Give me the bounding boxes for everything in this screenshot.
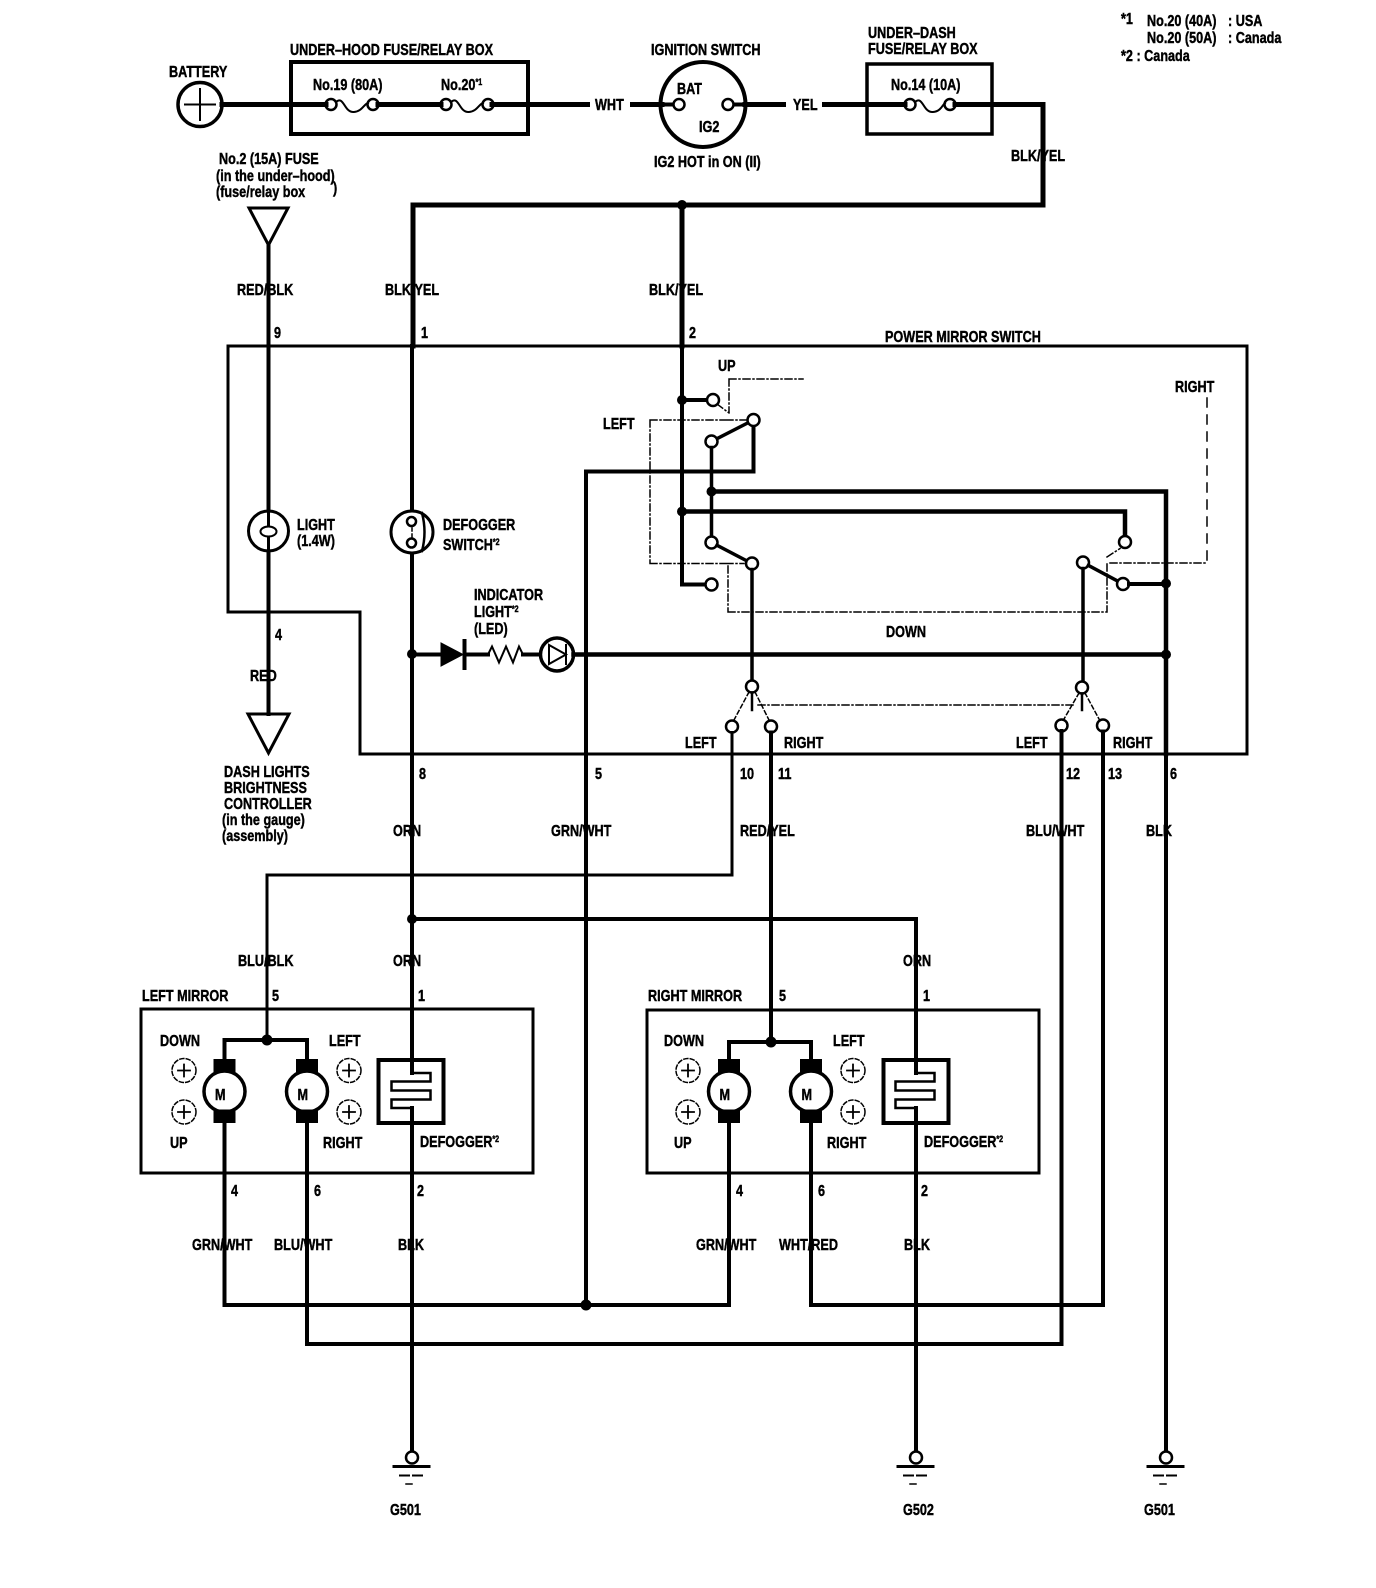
svg-text:6: 6 [314, 1183, 321, 1200]
under-hood fuse/relay box [291, 62, 528, 134]
svg-text:UNDER–DASH: UNDER–DASH [868, 25, 956, 42]
svg-text:BRIGHTNESS: BRIGHTNESS [224, 780, 307, 797]
power mirror switch box [228, 346, 1247, 754]
junction left mirror motors [262, 1035, 273, 1046]
wire WHT/RED bus to pin 13 [811, 732, 1103, 1306]
svg-text:BLK: BLK [1146, 823, 1172, 840]
fuse No.14 [905, 99, 916, 110]
svg-text:UNDER–HOOD FUSE/RELAY BOX: UNDER–HOOD FUSE/RELAY BOX [290, 42, 493, 59]
svg-text:(assembly): (assembly) [222, 828, 288, 845]
svg-text:UP: UP [170, 1135, 188, 1152]
wire battery to under-hood fuse box [222, 102, 292, 107]
svg-text:LIGHT: LIGHT [297, 517, 335, 534]
svg-text:LIGHT*2: LIGHT*2 [474, 604, 519, 621]
svg-text:4: 4 [231, 1183, 238, 1200]
junction ORN split [407, 914, 417, 924]
UP contact [707, 394, 719, 406]
right switch lever [1088, 565, 1117, 581]
right switch upper throw contact [1119, 536, 1131, 548]
ground G501 left [406, 1452, 418, 1464]
svg-text:No.14 (10A): No.14 (10A) [891, 77, 961, 94]
svg-text:8: 8 [419, 766, 426, 783]
svg-text:BLU/BLK: BLU/BLK [238, 953, 294, 970]
wire inside under-dash box [867, 102, 992, 107]
wire horizontal-1 to right side [712, 492, 1167, 755]
svg-text:No.19 (80A): No.19 (80A) [313, 77, 383, 94]
right mirror box [647, 1010, 1039, 1173]
adjuster screw top-left right mirror [676, 1059, 700, 1083]
ignition terminal BAT [674, 99, 685, 110]
svg-text:IG2: IG2 [699, 119, 719, 136]
contact pin 11 [765, 721, 777, 733]
motor M4 left/right right mirror [800, 1059, 822, 1073]
wire inside under-hood box [291, 102, 528, 107]
svg-text:No.2 (15A) FUSE: No.2 (15A) FUSE [219, 151, 319, 168]
svg-text:11: 11 [778, 766, 791, 783]
junction right vertical at stub [1161, 579, 1171, 589]
motor M3 up/down right mirror [718, 1059, 740, 1073]
svg-text:BLK: BLK [904, 1237, 930, 1254]
wire stub right throw to vertical [1129, 582, 1166, 586]
svg-text:POWER MIRROR SWITCH: POWER MIRROR SWITCH [885, 329, 1041, 346]
wire to diode [412, 653, 441, 657]
adjuster screw bottom-right [337, 1100, 361, 1124]
svg-text:(1.4W): (1.4W) [297, 533, 335, 550]
svg-text:G501: G501 [390, 1502, 421, 1519]
svg-text:DOWN: DOWN [664, 1033, 704, 1050]
wire RED pin 4 to dash lights controller [267, 612, 271, 714]
svg-text:: Canada: : Canada [1228, 30, 1281, 47]
svg-text:WHT/RED: WHT/RED [779, 1237, 838, 1254]
svg-text:No.20 (50A): No.20 (50A) [1147, 30, 1217, 47]
svg-text:BLK: BLK [398, 1237, 424, 1254]
mirror select mech link dashed [758, 704, 1074, 706]
svg-text:5: 5 [779, 988, 786, 1005]
svg-text:6: 6 [818, 1183, 825, 1200]
svg-text:DOWN: DOWN [886, 624, 926, 641]
defogger switch S2 [391, 511, 433, 553]
svg-text:(fuse/relay box: (fuse/relay box [216, 184, 305, 201]
svg-text:9: 9 [274, 325, 281, 342]
svg-text:5: 5 [272, 988, 279, 1005]
svg-text:13: 13 [1108, 766, 1122, 783]
diode D1 [441, 643, 463, 666]
wire BLU/WHT bus to pin 12 [307, 731, 1062, 1344]
mech link RIGHT dashed [1107, 549, 1207, 564]
svg-text:10: 10 [740, 766, 754, 783]
adjuster screw top-right right mirror [841, 1059, 865, 1083]
mirror select right lever [1081, 694, 1084, 711]
wire WHT fuse box to ignition switch [528, 102, 662, 107]
svg-text:DEFOGGER*2: DEFOGGER*2 [420, 1134, 499, 1151]
wire BLU/WHT left motor2 down [305, 1123, 309, 1344]
svg-text:IGNITION SWITCH: IGNITION SWITCH [651, 42, 761, 59]
svg-text:(in the gauge): (in the gauge) [222, 812, 305, 829]
svg-text:RED: RED [250, 668, 277, 685]
svg-text:G502: G502 [903, 1502, 934, 1519]
wire BLK/YEL from under-dash box down to bus [992, 105, 1043, 206]
svg-text:BLK/YEL: BLK/YEL [1011, 148, 1065, 165]
ground G502 [910, 1452, 922, 1464]
wire right pivot down to mirror-select [1081, 569, 1085, 683]
left switch lower throw contact [746, 558, 758, 570]
svg-text:): ) [333, 180, 337, 197]
wire pin 2 vertical inside box [682, 346, 706, 585]
wire diode to resistor [466, 653, 488, 657]
contact pin 12 [1056, 720, 1068, 732]
svg-text:GRN/WHT: GRN/WHT [696, 1237, 757, 1254]
svg-text:LEFT MIRROR: LEFT MIRROR [142, 988, 229, 1005]
svg-text:2: 2 [689, 325, 696, 342]
svg-text:BAT: BAT [677, 81, 702, 98]
svg-text:RIGHT: RIGHT [827, 1135, 866, 1152]
svg-text:CONTROLLER: CONTROLLER [224, 796, 312, 813]
svg-text:RIGHT: RIGHT [1113, 735, 1152, 752]
mirror select left lever [751, 693, 754, 711]
motor M1 up/down left mirror [214, 1059, 236, 1073]
svg-text:YEL: YEL [793, 97, 818, 114]
ground G501 right [1160, 1452, 1172, 1464]
adjuster screw top-left [172, 1059, 196, 1083]
left switch upper pivot contact [706, 436, 718, 448]
fuse No.2 symbol (triangle) [249, 208, 288, 245]
ignition switch SW1 [661, 62, 746, 147]
wire LED to right bus [574, 652, 1167, 657]
svg-text:No.20 (40A): No.20 (40A) [1147, 13, 1217, 30]
svg-text:4: 4 [736, 1183, 743, 1200]
svg-text:ORN: ORN [903, 953, 931, 970]
right switch pivot contact [1077, 557, 1089, 569]
svg-text:M: M [298, 1087, 309, 1104]
svg-text:DASH LIGHTS: DASH LIGHTS [224, 764, 310, 781]
svg-text:RIGHT: RIGHT [784, 735, 823, 752]
svg-text:No.20*1: No.20*1 [441, 77, 482, 94]
ignition terminal IG2 [723, 99, 734, 110]
svg-text:RIGHT: RIGHT [1175, 379, 1214, 396]
right defogger element box [884, 1060, 949, 1123]
mirror select left dashed throws [734, 692, 769, 720]
wire to both left motors [225, 1040, 308, 1059]
svg-text:LEFT: LEFT [685, 735, 717, 752]
svg-text:(LED): (LED) [474, 621, 508, 638]
junction at indicator branch [407, 649, 417, 659]
wire pin 1 through defogger switch to junction [410, 346, 414, 654]
contact pin 10 [726, 721, 738, 733]
svg-text:INDICATOR: INDICATOR [474, 587, 543, 604]
battery B1 [178, 83, 222, 127]
wire RED/BLK to pin 9 [267, 245, 271, 346]
mech link UP dashed [717, 379, 803, 413]
LED indicator lamp [541, 638, 574, 671]
mech link LEFT dashed box [650, 420, 746, 564]
left defogger element [392, 1073, 431, 1108]
adjuster screw bottom-left right mirror [676, 1100, 700, 1124]
svg-text:DEFOGGER*2: DEFOGGER*2 [924, 1134, 1003, 1151]
left switch upper lever [717, 423, 748, 439]
svg-text:2: 2 [921, 1183, 928, 1200]
svg-text:RIGHT MIRROR: RIGHT MIRROR [648, 988, 742, 1005]
mirror select right dashed throws [1064, 693, 1099, 719]
wire BLK pin 6 to ground [1164, 754, 1168, 1451]
junction right mirror motors [766, 1037, 777, 1048]
svg-text:G501: G501 [1144, 1502, 1175, 1519]
left defogger element box [379, 1060, 444, 1123]
right defogger element [896, 1073, 935, 1108]
svg-text:BLU/WHT: BLU/WHT [1026, 823, 1084, 840]
junction pin2 up contact [677, 395, 687, 405]
wire WHT/RED right motor2 down [809, 1123, 813, 1305]
fuse No.20 [441, 99, 452, 110]
mirror select right common contact [1076, 682, 1088, 694]
left switch lower lever [717, 545, 747, 560]
svg-text:5: 5 [595, 766, 602, 783]
svg-text:RED/BLK: RED/BLK [237, 282, 294, 299]
wire BLU/BLK pin10 to left mirror pin5 [267, 733, 732, 1041]
adjuster screw bottom-right right mirror [841, 1100, 865, 1124]
adjuster screw top-right [337, 1059, 361, 1083]
svg-text:LEFT: LEFT [603, 416, 635, 433]
svg-text:2: 2 [417, 1183, 424, 1200]
left mirror box [141, 1009, 533, 1173]
adjuster screw bottom-left [172, 1100, 196, 1124]
svg-text:M: M [802, 1087, 813, 1104]
junction on bus [677, 200, 687, 210]
svg-text:DOWN: DOWN [160, 1033, 200, 1050]
wire ORN pin8 to defoggers [410, 654, 414, 1073]
svg-text:BATTERY: BATTERY [169, 64, 228, 81]
svg-text:LEFT: LEFT [329, 1033, 361, 1050]
mech link DOWN dashed box [728, 563, 1107, 613]
left switch lower pivot contact [706, 537, 718, 549]
junction right vertical at indicator bus [1161, 650, 1171, 660]
wire pin 9 to light to pin 4 [267, 346, 271, 612]
svg-text:M: M [215, 1087, 226, 1104]
resistor R1 [488, 647, 523, 663]
svg-text:BLK/YEL: BLK/YEL [385, 282, 439, 299]
wire resistor to LED [523, 653, 541, 657]
svg-text:ORN: ORN [393, 953, 421, 970]
junction pin2 horizontal-2 [677, 507, 687, 517]
junction GRN/WHT bus [581, 1300, 592, 1311]
wire bus to pins 1 and 2 [413, 205, 1043, 346]
svg-text:M: M [720, 1087, 731, 1104]
motor M2 left/right left mirror [296, 1059, 318, 1073]
wire GRN/WHT branch from pin 5 up and over [586, 426, 754, 754]
svg-text:GRN/WHT: GRN/WHT [551, 823, 612, 840]
svg-text:RIGHT: RIGHT [323, 1135, 362, 1152]
svg-text:1: 1 [421, 325, 428, 342]
svg-text:BLU/WHT: BLU/WHT [274, 1237, 332, 1254]
svg-text:*2 : Canada: *2 : Canada [1121, 48, 1190, 65]
wire BLK left defogger to ground [410, 1108, 414, 1451]
svg-text:FUSE/RELAY BOX: FUSE/RELAY BOX [868, 41, 978, 58]
svg-text:RED/YEL: RED/YEL [740, 823, 795, 840]
svg-text:WHT: WHT [595, 97, 624, 114]
svg-text:1: 1 [923, 988, 930, 1005]
svg-text:*1: *1 [1121, 11, 1133, 28]
svg-text:1: 1 [418, 988, 425, 1005]
right switch lower throw contact [1117, 578, 1129, 590]
wire pivot column down [710, 448, 714, 537]
svg-text:LEFT: LEFT [1016, 735, 1048, 752]
svg-text:DEFOGGER: DEFOGGER [443, 517, 516, 534]
svg-text:(in the under–hood): (in the under–hood) [216, 168, 335, 185]
svg-text:UP: UP [674, 1135, 692, 1152]
junction horizontal-1 [707, 487, 717, 497]
wire horizontal-2 to right switch [682, 512, 1125, 537]
svg-text:: USA: : USA [1228, 13, 1263, 30]
wire to both right motors [729, 1042, 811, 1059]
wire GRN/WHT right motor1 down [727, 1123, 731, 1305]
svg-text:BLK/YEL: BLK/YEL [649, 282, 703, 299]
wire ORN branch to right defogger [412, 919, 916, 1073]
dash lights controller connector (triangle) [248, 714, 289, 753]
illumination light (1.4W) [249, 511, 289, 551]
wire YEL ignition to under-dash box [745, 102, 867, 107]
svg-text:SWITCH*2: SWITCH*2 [443, 537, 500, 554]
left switch lower fixed contact [706, 579, 718, 591]
svg-text:IG2 HOT in ON (II): IG2 HOT in ON (II) [654, 154, 761, 171]
wire GRN/WHT bus joining pin5 and both mirrors [225, 754, 730, 1305]
svg-text:ORN: ORN [393, 823, 421, 840]
svg-text:GRN/WHT: GRN/WHT [192, 1237, 253, 1254]
under-dash fuse/relay box [867, 64, 992, 134]
fuse No.19 [326, 99, 337, 110]
wire lower throw down to mirror-select [750, 570, 754, 681]
svg-text:4: 4 [275, 627, 282, 644]
wire GRN/WHT left motor1 down [223, 1123, 227, 1305]
contact pin 13 [1097, 720, 1109, 732]
mirror select left common contact [746, 681, 758, 693]
wire stub to UP contact [682, 398, 707, 402]
wire RED/YEL pin11 to right mirror pin5 [769, 733, 773, 1043]
left switch upper throw contact [748, 414, 760, 426]
svg-text:12: 12 [1066, 766, 1080, 783]
svg-text:LEFT: LEFT [833, 1033, 865, 1050]
svg-text:UP: UP [718, 358, 736, 375]
wire BLK right defogger to ground [914, 1108, 918, 1451]
svg-text:6: 6 [1170, 766, 1177, 783]
